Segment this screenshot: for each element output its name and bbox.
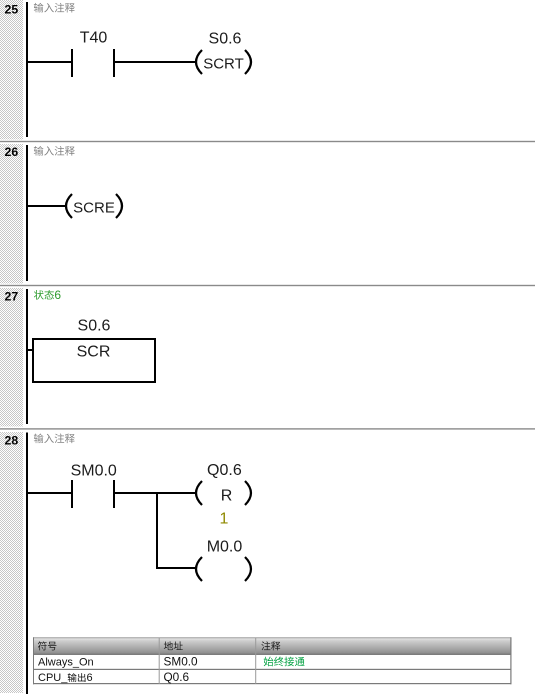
- svg-text:SCR: SCR: [77, 343, 111, 360]
- svg-text:28: 28: [5, 433, 19, 447]
- svg-text:6: 6: [87, 672, 93, 684]
- svg-text:SM0.0: SM0.0: [71, 463, 117, 480]
- svg-text:SCRT: SCRT: [203, 55, 244, 72]
- svg-text:T40: T40: [80, 29, 108, 46]
- svg-text:6: 6: [54, 288, 61, 302]
- svg-text:M0.0: M0.0: [207, 539, 243, 556]
- svg-text:S0.6: S0.6: [78, 318, 111, 335]
- svg-text:26: 26: [5, 145, 19, 159]
- svg-text:27: 27: [5, 290, 19, 304]
- svg-text:Always_On: Always_On: [38, 657, 94, 669]
- svg-text:SM0.0: SM0.0: [164, 655, 199, 669]
- svg-text:CPU_: CPU_: [38, 672, 68, 684]
- svg-text:S0.6: S0.6: [209, 30, 242, 47]
- svg-text:Q0.6: Q0.6: [164, 670, 190, 684]
- svg-text:R: R: [221, 488, 233, 505]
- svg-text:1: 1: [220, 511, 229, 528]
- svg-text:SCRE: SCRE: [73, 199, 115, 216]
- svg-text:Q0.6: Q0.6: [207, 462, 242, 479]
- svg-text:25: 25: [5, 2, 19, 16]
